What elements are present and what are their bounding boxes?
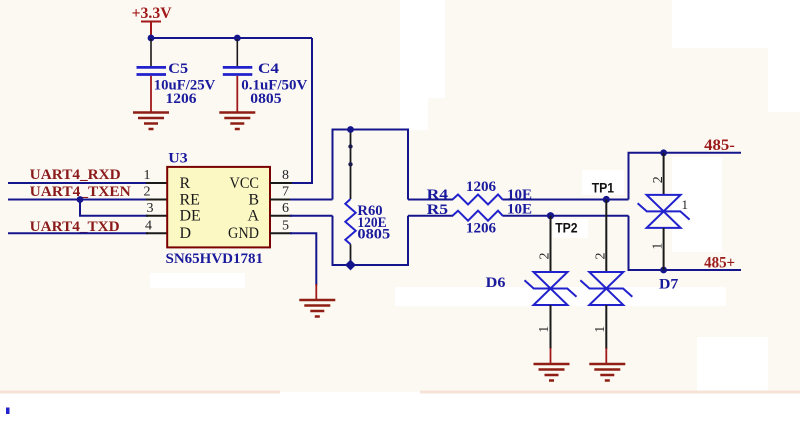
svg-text:2: 2 (538, 253, 553, 260)
svg-text:4: 4 (145, 219, 152, 234)
node junction C4 (234, 35, 241, 42)
sheet edge line (0, 391, 280, 394)
wire pin7 B to termination (290, 199, 333, 201)
svg-text:U3: U3 (168, 151, 187, 167)
svg-text:D: D (180, 225, 192, 242)
svg-text:1: 1 (144, 168, 151, 183)
power stub GND (315, 284, 317, 300)
svg-text:1206: 1206 (466, 221, 497, 237)
svg-text:SN65HVD1781: SN65HVD1781 (166, 251, 264, 267)
wire VCC riser (290, 38, 312, 183)
svg-text:+3.3V: +3.3V (132, 5, 173, 22)
wire TP1 down (605, 200, 607, 273)
ground under D6 (534, 364, 570, 381)
svg-text:7: 7 (282, 185, 289, 200)
power stub (605, 348, 607, 364)
svg-text:1206: 1206 (466, 179, 497, 195)
node junction TXEN (77, 196, 84, 203)
TVS diode D7 (638, 195, 690, 228)
svg-text:1206: 1206 (166, 91, 198, 107)
wire riser B to 485- (629, 153, 742, 200)
wire pin6 A to termination (290, 215, 333, 217)
svg-text:485-: 485- (704, 137, 735, 154)
wire D7 bottom (663, 228, 665, 270)
svg-text:C4: C4 (258, 61, 280, 77)
resistor R5 (427, 202, 532, 237)
wire pin5 GND (290, 233, 316, 285)
capacitor C4 (223, 39, 308, 112)
IC U3 pins 1-4 (left) (146, 183, 167, 233)
wire TXD (8, 232, 148, 234)
wire TXEN to DE (80, 200, 148, 216)
svg-text:VCC: VCC (230, 175, 260, 192)
svg-text:6: 6 (282, 201, 289, 216)
svg-text:0805: 0805 (357, 226, 390, 242)
svg-text:A: A (247, 208, 259, 225)
wire A row (408, 215, 453, 217)
IC U3 body (167, 167, 270, 248)
svg-text:2: 2 (144, 185, 151, 200)
ground under pin5 (299, 300, 335, 317)
svg-text:D6: D6 (486, 275, 506, 291)
svg-text:UART4_RXD: UART4_RXD (30, 167, 121, 183)
wire B loop (333, 130, 409, 200)
wire TP2 TVS to ground (550, 305, 552, 349)
wire A loop (333, 216, 409, 265)
node junction C5 (148, 35, 155, 42)
svg-text:D7: D7 (659, 277, 679, 293)
svg-text:0805: 0805 (250, 91, 281, 107)
node junction TP1 (603, 196, 610, 203)
node junction D7 top (660, 149, 667, 156)
svg-text:R4: R4 (427, 187, 449, 203)
wire TXEN (8, 199, 148, 201)
svg-text:2: 2 (651, 176, 666, 183)
wire B row to TP1 (503, 199, 629, 201)
resistor R60 (345, 130, 390, 266)
node junction D7 bottom (660, 267, 667, 274)
ground under TP1 TVS (589, 364, 625, 381)
IC U3 pins 5-8 (right) (270, 183, 292, 233)
wire TP2 down (550, 216, 552, 273)
power stub (550, 348, 552, 364)
svg-text:2: 2 (593, 253, 608, 260)
ground under C5 (133, 113, 169, 130)
wire B row (408, 199, 453, 201)
svg-text:GND: GND (228, 225, 259, 242)
capacitor C5 (137, 39, 216, 112)
node junction R60 bottom (diamond) (345, 260, 356, 271)
svg-text:R5: R5 (427, 202, 449, 218)
svg-text:5: 5 (282, 219, 289, 234)
node small dot b (348, 162, 352, 166)
svg-text:R: R (180, 175, 191, 192)
svg-text:DE: DE (180, 208, 201, 225)
svg-text:C5: C5 (168, 61, 188, 77)
TVS diode at TP1 (580, 272, 632, 305)
svg-text:3: 3 (147, 201, 154, 216)
svg-text:8: 8 (282, 168, 289, 183)
node junction TP2 (547, 212, 554, 219)
svg-text:RE: RE (180, 191, 200, 208)
svg-text:TP1: TP1 (592, 180, 615, 195)
TVS diode D6 (525, 272, 577, 305)
wire A row to riser (503, 215, 629, 217)
wire riser A to 485+ (629, 216, 742, 270)
wire top rail (151, 37, 312, 39)
ground under C4 (219, 113, 255, 130)
resistor R4 (427, 179, 532, 205)
wire RXD (8, 182, 148, 184)
svg-text:TP2: TP2 (555, 221, 577, 236)
white patches (150, 0, 800, 394)
node junction R60 top (347, 126, 354, 133)
wire TP1 TVS to ground (605, 305, 607, 349)
cursor mark (6, 408, 10, 415)
node small dot a (348, 144, 352, 148)
wire D7 top (663, 153, 665, 195)
svg-text:1: 1 (682, 197, 689, 212)
svg-text:485+: 485+ (704, 254, 735, 271)
power port +3.3V (132, 5, 173, 37)
svg-text:B: B (248, 191, 259, 208)
